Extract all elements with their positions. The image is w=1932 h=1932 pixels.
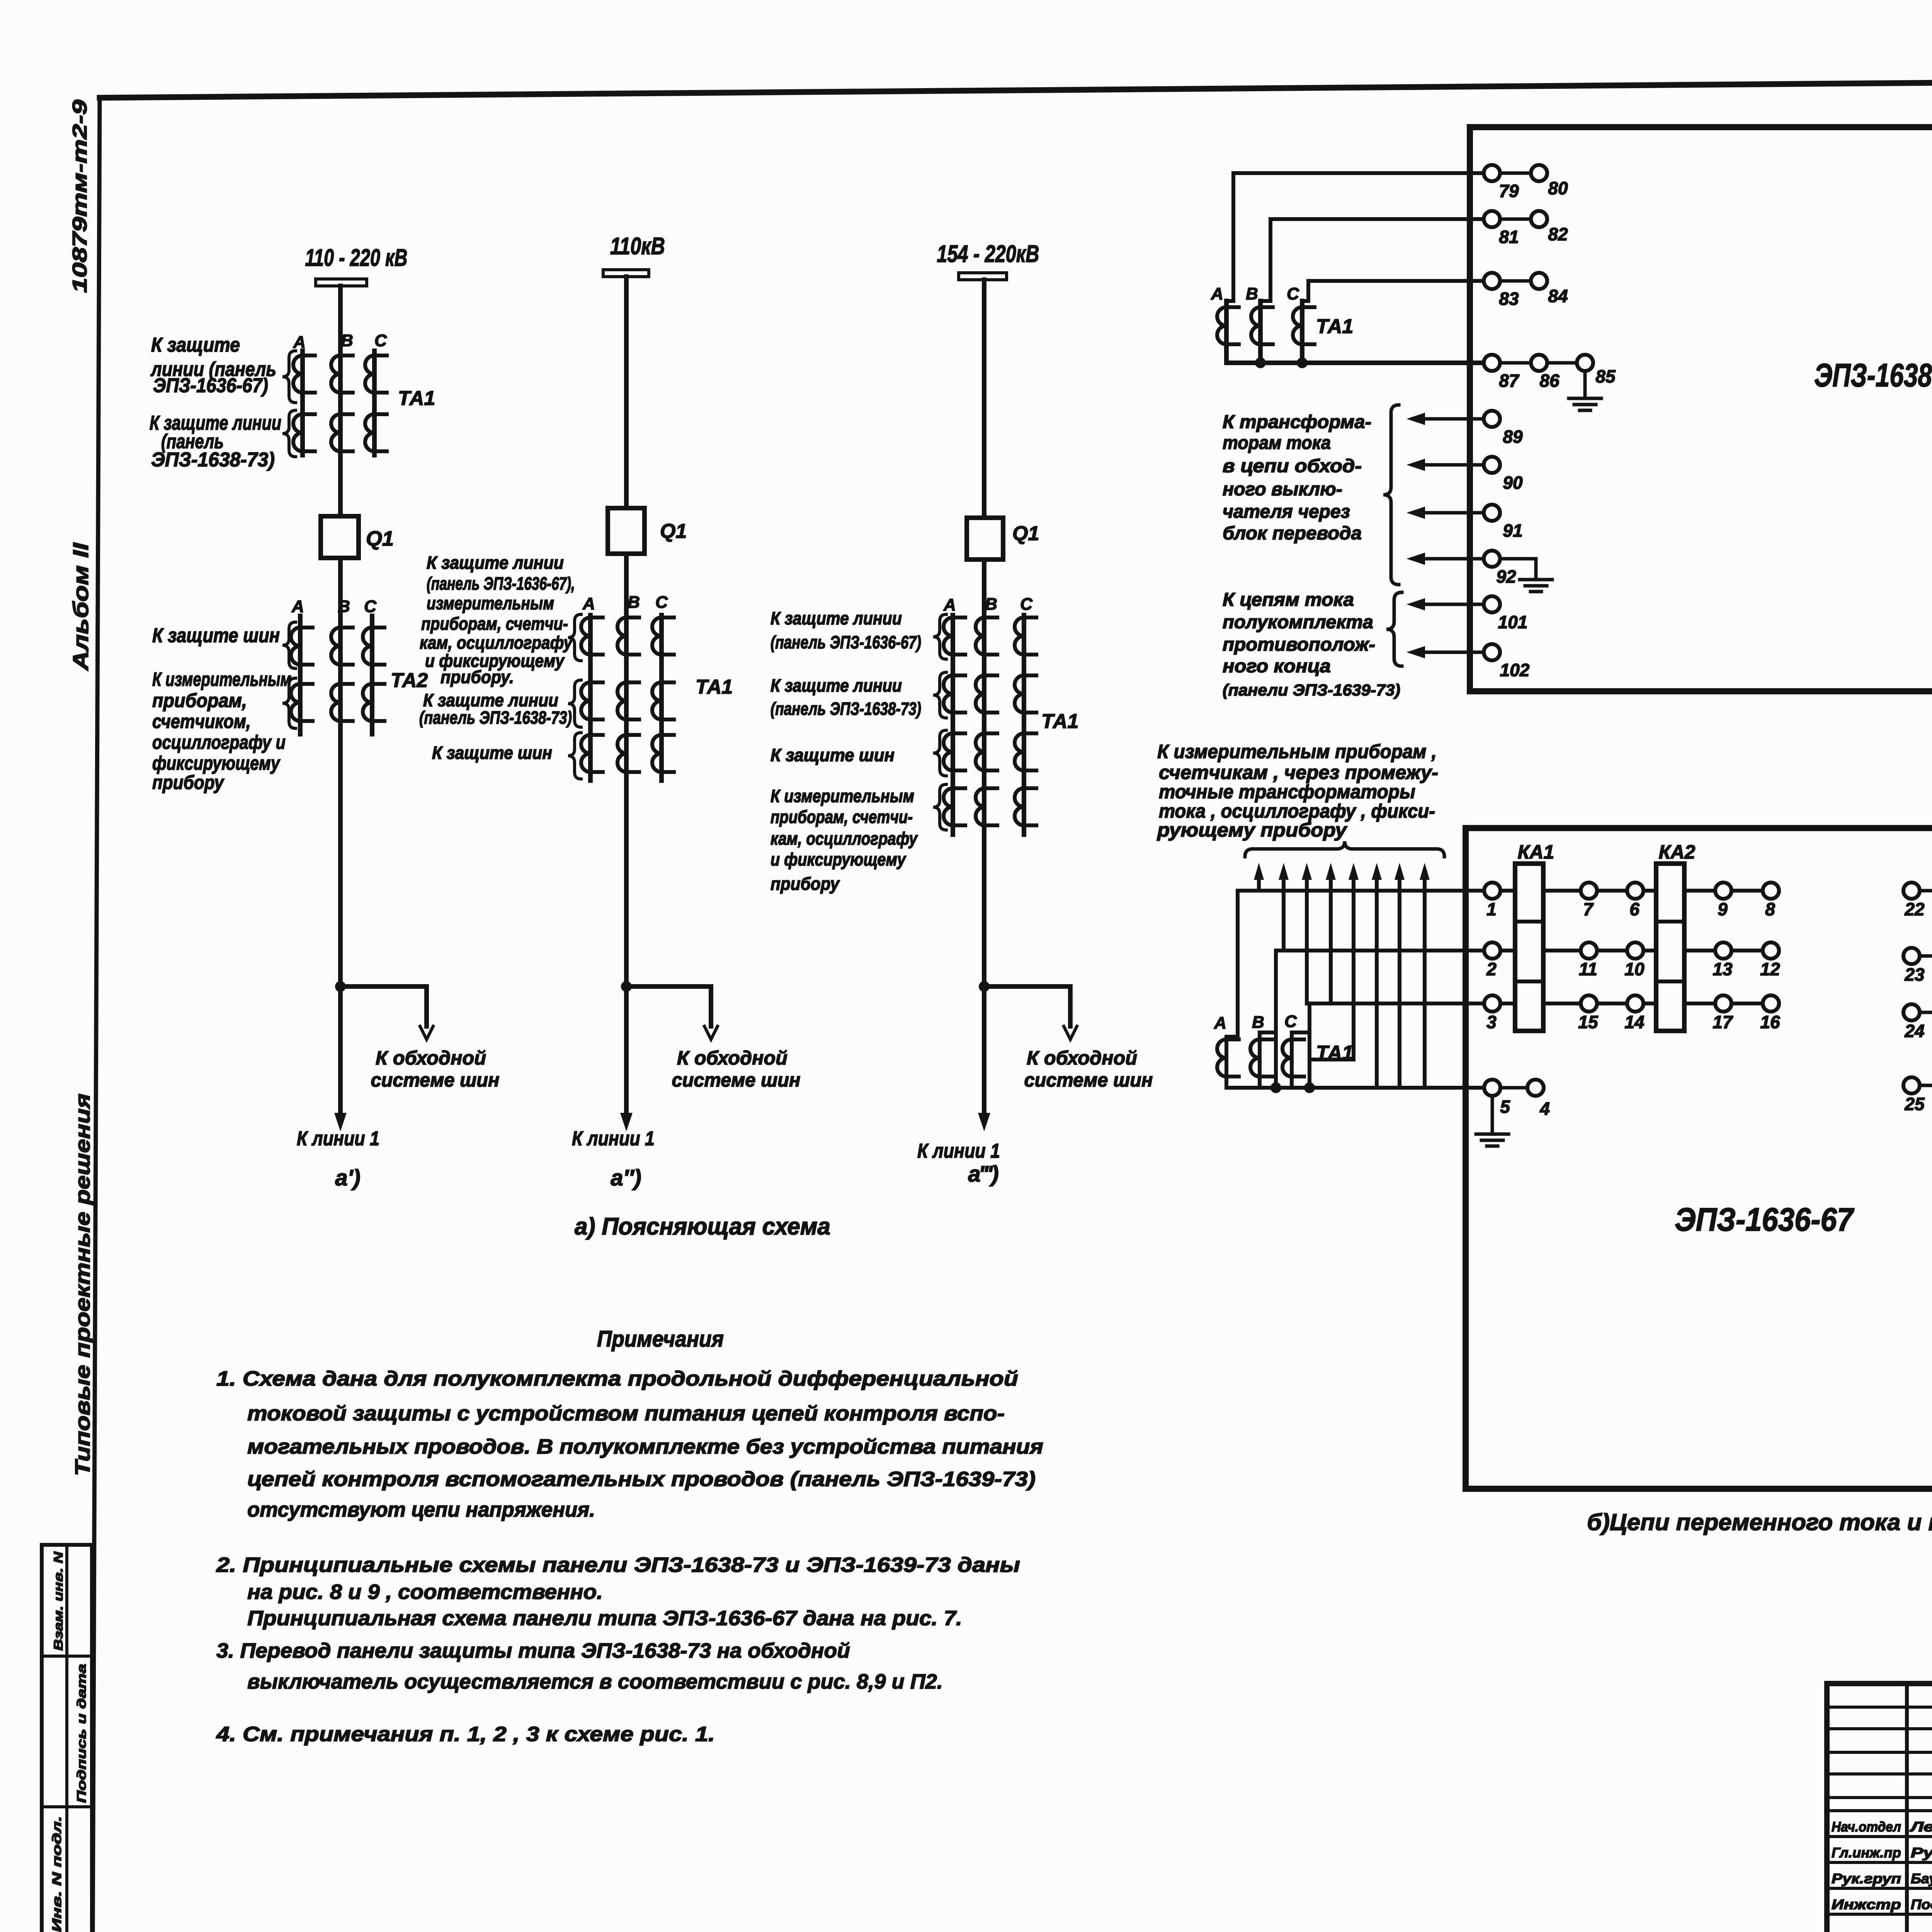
svg-text:79: 79 bbox=[1499, 181, 1519, 201]
svg-text:и фиксирующему: и фиксирующему bbox=[770, 849, 906, 869]
svg-text:13: 13 bbox=[1713, 959, 1733, 979]
svg-text:счетчиком,: счетчиком, bbox=[152, 711, 251, 732]
svg-text:счетчикам , через промежу-: счетчикам , через промежу- bbox=[1159, 762, 1438, 783]
svg-text:14: 14 bbox=[1624, 1012, 1644, 1032]
svg-text:В: В bbox=[628, 593, 640, 612]
svg-text:4. См. примечания п. 1, 2 ,: 4. См. примечания п. 1, 2 , 3 к схеме ри… bbox=[216, 1723, 715, 1746]
svg-text:А: А bbox=[943, 595, 956, 614]
svg-text:А: А bbox=[582, 594, 595, 613]
svg-text:92: 92 bbox=[1496, 566, 1516, 587]
svg-text:4: 4 bbox=[1539, 1099, 1550, 1119]
svg-text:(панель ЭПЗ-1636-67): (панель ЭПЗ-1636-67) bbox=[770, 632, 921, 652]
svg-text:К защите шин: К защите шин bbox=[770, 745, 895, 765]
svg-text:К цепям тока: К цепям тока bbox=[1223, 590, 1354, 610]
svg-text:К защите: К защите bbox=[151, 334, 240, 356]
svg-text:Взам. инв. N: Взам. инв. N bbox=[51, 1551, 65, 1651]
svg-text:154 - 220кВ: 154 - 220кВ bbox=[937, 241, 1039, 267]
svg-text:Принципиальная схема панели: Принципиальная схема панели типа ЭПЗ-163… bbox=[247, 1607, 962, 1630]
svg-text:В: В bbox=[341, 331, 353, 350]
svg-text:С: С bbox=[1020, 595, 1033, 614]
svg-text:3: 3 bbox=[1486, 1012, 1497, 1032]
svg-text:ТА1: ТА1 bbox=[1316, 1042, 1353, 1064]
svg-text:могательных проводов. В полу: могательных проводов. В полукомплекте бе… bbox=[247, 1435, 1043, 1458]
svg-text:системе шин: системе шин bbox=[672, 1069, 801, 1091]
svg-text:6: 6 bbox=[1629, 899, 1639, 919]
svg-text:110кВ: 110кВ bbox=[610, 233, 665, 260]
svg-text:85: 85 bbox=[1595, 366, 1616, 386]
svg-text:противополож-: противополож- bbox=[1223, 634, 1375, 655]
svg-text:К линии 1: К линии 1 bbox=[917, 1140, 1000, 1162]
svg-text:К измерительным: К измерительным bbox=[770, 786, 914, 806]
svg-text:ТА1: ТА1 bbox=[1041, 710, 1078, 733]
svg-text:7: 7 bbox=[1583, 899, 1594, 919]
svg-text:В: В bbox=[985, 595, 997, 614]
svg-text:ЭПЗ-1636-67: ЭПЗ-1636-67 bbox=[1675, 1201, 1854, 1238]
svg-text:блок перевода: блок перевода bbox=[1223, 523, 1362, 544]
svg-text:К измерительным приборам ,: К измерительным приборам , bbox=[1157, 741, 1437, 762]
svg-text:кам, осциллографу: кам, осциллографу bbox=[420, 633, 573, 653]
svg-text:2: 2 bbox=[1486, 959, 1497, 979]
svg-text:торам тока: торам тока bbox=[1223, 433, 1331, 453]
svg-text:А: А bbox=[291, 597, 304, 616]
svg-text:ЭПЗ-1638-73: ЭПЗ-1638-73 bbox=[1814, 357, 1932, 393]
svg-text:приборам, счетчи-: приборам, счетчи- bbox=[770, 807, 913, 827]
svg-text:9: 9 bbox=[1718, 899, 1728, 919]
svg-text:80: 80 bbox=[1548, 178, 1568, 198]
svg-text:а‴): а‴) bbox=[968, 1162, 998, 1187]
svg-text:Q1: Q1 bbox=[1012, 522, 1039, 545]
svg-text:А: А bbox=[1211, 284, 1223, 303]
svg-text:ного выклю-: ного выклю- bbox=[1223, 479, 1342, 500]
svg-text:23: 23 bbox=[1904, 964, 1925, 985]
svg-text:12: 12 bbox=[1760, 959, 1780, 979]
svg-text:Инв. N подл.: Инв. N подл. bbox=[50, 1816, 64, 1932]
svg-text:С: С bbox=[1287, 284, 1299, 303]
svg-text:Типовые проектные решения: Типовые проектные решения bbox=[71, 1094, 94, 1476]
svg-text:Q1: Q1 bbox=[366, 527, 394, 550]
svg-text:ТА2: ТА2 bbox=[391, 669, 428, 692]
svg-text:а'): а') bbox=[335, 1165, 360, 1190]
svg-text:рующему прибору: рующему прибору bbox=[1156, 819, 1347, 841]
svg-text:ного конца: ного конца bbox=[1223, 656, 1331, 677]
svg-text:К трансформа-: К трансформа- bbox=[1223, 412, 1371, 432]
svg-text:11: 11 bbox=[1579, 959, 1597, 979]
svg-text:1: 1 bbox=[1486, 899, 1497, 919]
svg-text:Левкович: Левкович bbox=[1909, 1819, 1932, 1835]
svg-text:5: 5 bbox=[1500, 1097, 1510, 1117]
svg-text:на рис. 8 и 9 , соответстве: на рис. 8 и 9 , соответственно. bbox=[247, 1580, 603, 1604]
svg-text:К защите линии: К защите линии bbox=[770, 675, 902, 696]
svg-text:С: С bbox=[1284, 1012, 1297, 1031]
svg-text:ТА1: ТА1 bbox=[696, 676, 733, 698]
svg-text:В: В bbox=[1252, 1013, 1264, 1032]
svg-text:2. Принципиальные схемы пан: 2. Принципиальные схемы панели ЭПЗ-1638-… bbox=[216, 1553, 1020, 1577]
svg-text:К линии 1: К линии 1 bbox=[572, 1128, 655, 1150]
svg-text:89: 89 bbox=[1503, 427, 1523, 447]
svg-text:Примечания: Примечания bbox=[597, 1327, 724, 1352]
svg-text:Рук.груп: Рук.груп bbox=[1832, 1871, 1901, 1886]
svg-text:24: 24 bbox=[1904, 1021, 1924, 1041]
svg-text:102: 102 bbox=[1500, 660, 1530, 680]
svg-text:фиксирующему: фиксирующему bbox=[152, 752, 281, 774]
svg-text:16: 16 bbox=[1760, 1012, 1780, 1032]
svg-text:А: А bbox=[1214, 1014, 1226, 1032]
svg-text:тока , осциллографу , фикси-: тока , осциллографу , фикси- bbox=[1159, 800, 1435, 822]
svg-text:15: 15 bbox=[1578, 1012, 1599, 1032]
svg-text:ЭПЗ-1638-73): ЭПЗ-1638-73) bbox=[151, 449, 275, 471]
svg-text:С: С bbox=[364, 597, 377, 616]
svg-text:Q1: Q1 bbox=[660, 520, 687, 543]
svg-text:в цепи обход-: в цепи обход- bbox=[1223, 456, 1362, 476]
svg-text:выключатель осуществляется: выключатель осуществляется в соответстви… bbox=[247, 1670, 943, 1693]
svg-text:измерительным: измерительным bbox=[427, 593, 554, 613]
svg-text:полукомплекта: полукомплекта bbox=[1223, 612, 1373, 633]
svg-text:а″): а″) bbox=[611, 1165, 641, 1190]
svg-text:25: 25 bbox=[1904, 1094, 1925, 1114]
svg-text:87: 87 bbox=[1499, 371, 1520, 391]
svg-text:(панели ЭПЗ-1639-73): (панели ЭПЗ-1639-73) bbox=[1223, 681, 1400, 699]
svg-text:22: 22 bbox=[1904, 899, 1925, 919]
svg-text:токовой защиты с устройством: токовой защиты с устройством питания цеп… bbox=[247, 1402, 1005, 1425]
svg-text:84: 84 bbox=[1548, 286, 1568, 306]
svg-text:Рубинчик: Рубинчик bbox=[1911, 1845, 1932, 1861]
svg-text:Гл.инж.пр: Гл.инж.пр bbox=[1832, 1845, 1901, 1861]
svg-text:ТА1: ТА1 bbox=[1316, 315, 1353, 338]
svg-text:А: А bbox=[293, 333, 306, 352]
svg-text:Подпись и дата: Подпись и дата bbox=[75, 1664, 88, 1803]
svg-text:(панель ЭПЗ-1638-73): (панель ЭПЗ-1638-73) bbox=[419, 707, 572, 728]
svg-text:а) Пояcняющая схема: а) Пояcняющая схема bbox=[575, 1213, 830, 1240]
svg-text:3. Перевод панели защиты т: 3. Перевод панели защиты типа ЭПЗ-1638-7… bbox=[216, 1639, 850, 1662]
svg-text:К защите шин: К защите шин bbox=[152, 624, 280, 647]
svg-text:1. Схема дана для полукомпл: 1. Схема дана для полукомплекта продольн… bbox=[216, 1367, 1018, 1390]
svg-text:Нач.отдел: Нач.отдел bbox=[1832, 1819, 1901, 1835]
svg-text:отсутствуют цепи напряжения.: отсутствуют цепи напряжения. bbox=[247, 1498, 595, 1521]
svg-text:(панель ЭПЗ-1638-73): (панель ЭПЗ-1638-73) bbox=[770, 699, 921, 719]
svg-text:91: 91 bbox=[1503, 520, 1522, 541]
svg-text:К измерительным: К измерительным bbox=[152, 668, 291, 690]
svg-text:б)Цепи переменного тока и: б)Цепи переменного тока и напряжения bbox=[1587, 1509, 1932, 1535]
svg-text:цепей контроля вспомогательн: цепей контроля вспомогательных проводов … bbox=[247, 1468, 1036, 1491]
svg-text:К обходной: К обходной bbox=[1027, 1047, 1137, 1069]
svg-text:Баумштейн: Баумштейн bbox=[1911, 1871, 1932, 1886]
svg-text:101: 101 bbox=[1498, 612, 1528, 632]
svg-text:С: С bbox=[374, 331, 387, 350]
svg-text:90: 90 bbox=[1503, 473, 1523, 493]
svg-text:кам, осциллографу: кам, осциллографу bbox=[770, 828, 918, 849]
svg-text:приборам,: приборам, bbox=[152, 690, 247, 711]
svg-text:С: С bbox=[655, 593, 668, 612]
svg-text:83: 83 bbox=[1499, 289, 1519, 309]
svg-text:К защите линии: К защите линии bbox=[770, 608, 902, 628]
svg-text:К обходной: К обходной bbox=[677, 1047, 787, 1069]
svg-text:системе шин: системе шин bbox=[371, 1069, 500, 1091]
svg-text:(панель ЭПЗ-1636-67),: (панель ЭПЗ-1636-67), bbox=[427, 573, 575, 594]
svg-text:чателя через: чателя через bbox=[1223, 502, 1350, 522]
svg-text:К защите шин: К защите шин bbox=[432, 743, 552, 763]
svg-text:Инжстр: Инжстр bbox=[1832, 1896, 1901, 1912]
svg-text:8: 8 bbox=[1765, 899, 1775, 919]
svg-text:КА2: КА2 bbox=[1659, 841, 1696, 863]
svg-text:приборам, счетчи-: приборам, счетчи- bbox=[421, 614, 568, 634]
svg-text:точные трансформаторы: точные трансформаторы bbox=[1159, 781, 1415, 803]
svg-text:10: 10 bbox=[1624, 959, 1645, 979]
svg-text:10879тм-т2-9: 10879тм-т2-9 bbox=[69, 100, 91, 293]
svg-text:В: В bbox=[1246, 284, 1258, 303]
svg-text:К обходной: К обходной bbox=[376, 1047, 486, 1069]
svg-text:82: 82 bbox=[1548, 224, 1568, 244]
svg-text:К линии 1: К линии 1 bbox=[297, 1128, 379, 1150]
svg-text:Альбом II: Альбом II bbox=[68, 542, 93, 671]
svg-text:110 - 220 кВ: 110 - 220 кВ bbox=[305, 245, 408, 271]
svg-text:ЭПЗ-1636-67): ЭПЗ-1636-67) bbox=[153, 374, 268, 397]
svg-text:прибору.: прибору. bbox=[440, 667, 514, 687]
svg-text:системе шин: системе шин bbox=[1024, 1069, 1153, 1091]
svg-text:КА1: КА1 bbox=[1518, 841, 1554, 863]
svg-text:17: 17 bbox=[1713, 1012, 1733, 1032]
svg-text:прибору: прибору bbox=[770, 874, 840, 894]
svg-text:прибору: прибору bbox=[152, 772, 224, 793]
svg-text:осциллографу и: осциллографу и bbox=[152, 731, 286, 753]
svg-text:81: 81 bbox=[1499, 227, 1519, 247]
svg-text:86: 86 bbox=[1539, 371, 1560, 391]
svg-text:ТА1: ТА1 bbox=[398, 387, 435, 410]
svg-text:Подольская: Подольская bbox=[1911, 1896, 1932, 1912]
svg-text:К защите линии: К защите линии bbox=[427, 553, 564, 573]
